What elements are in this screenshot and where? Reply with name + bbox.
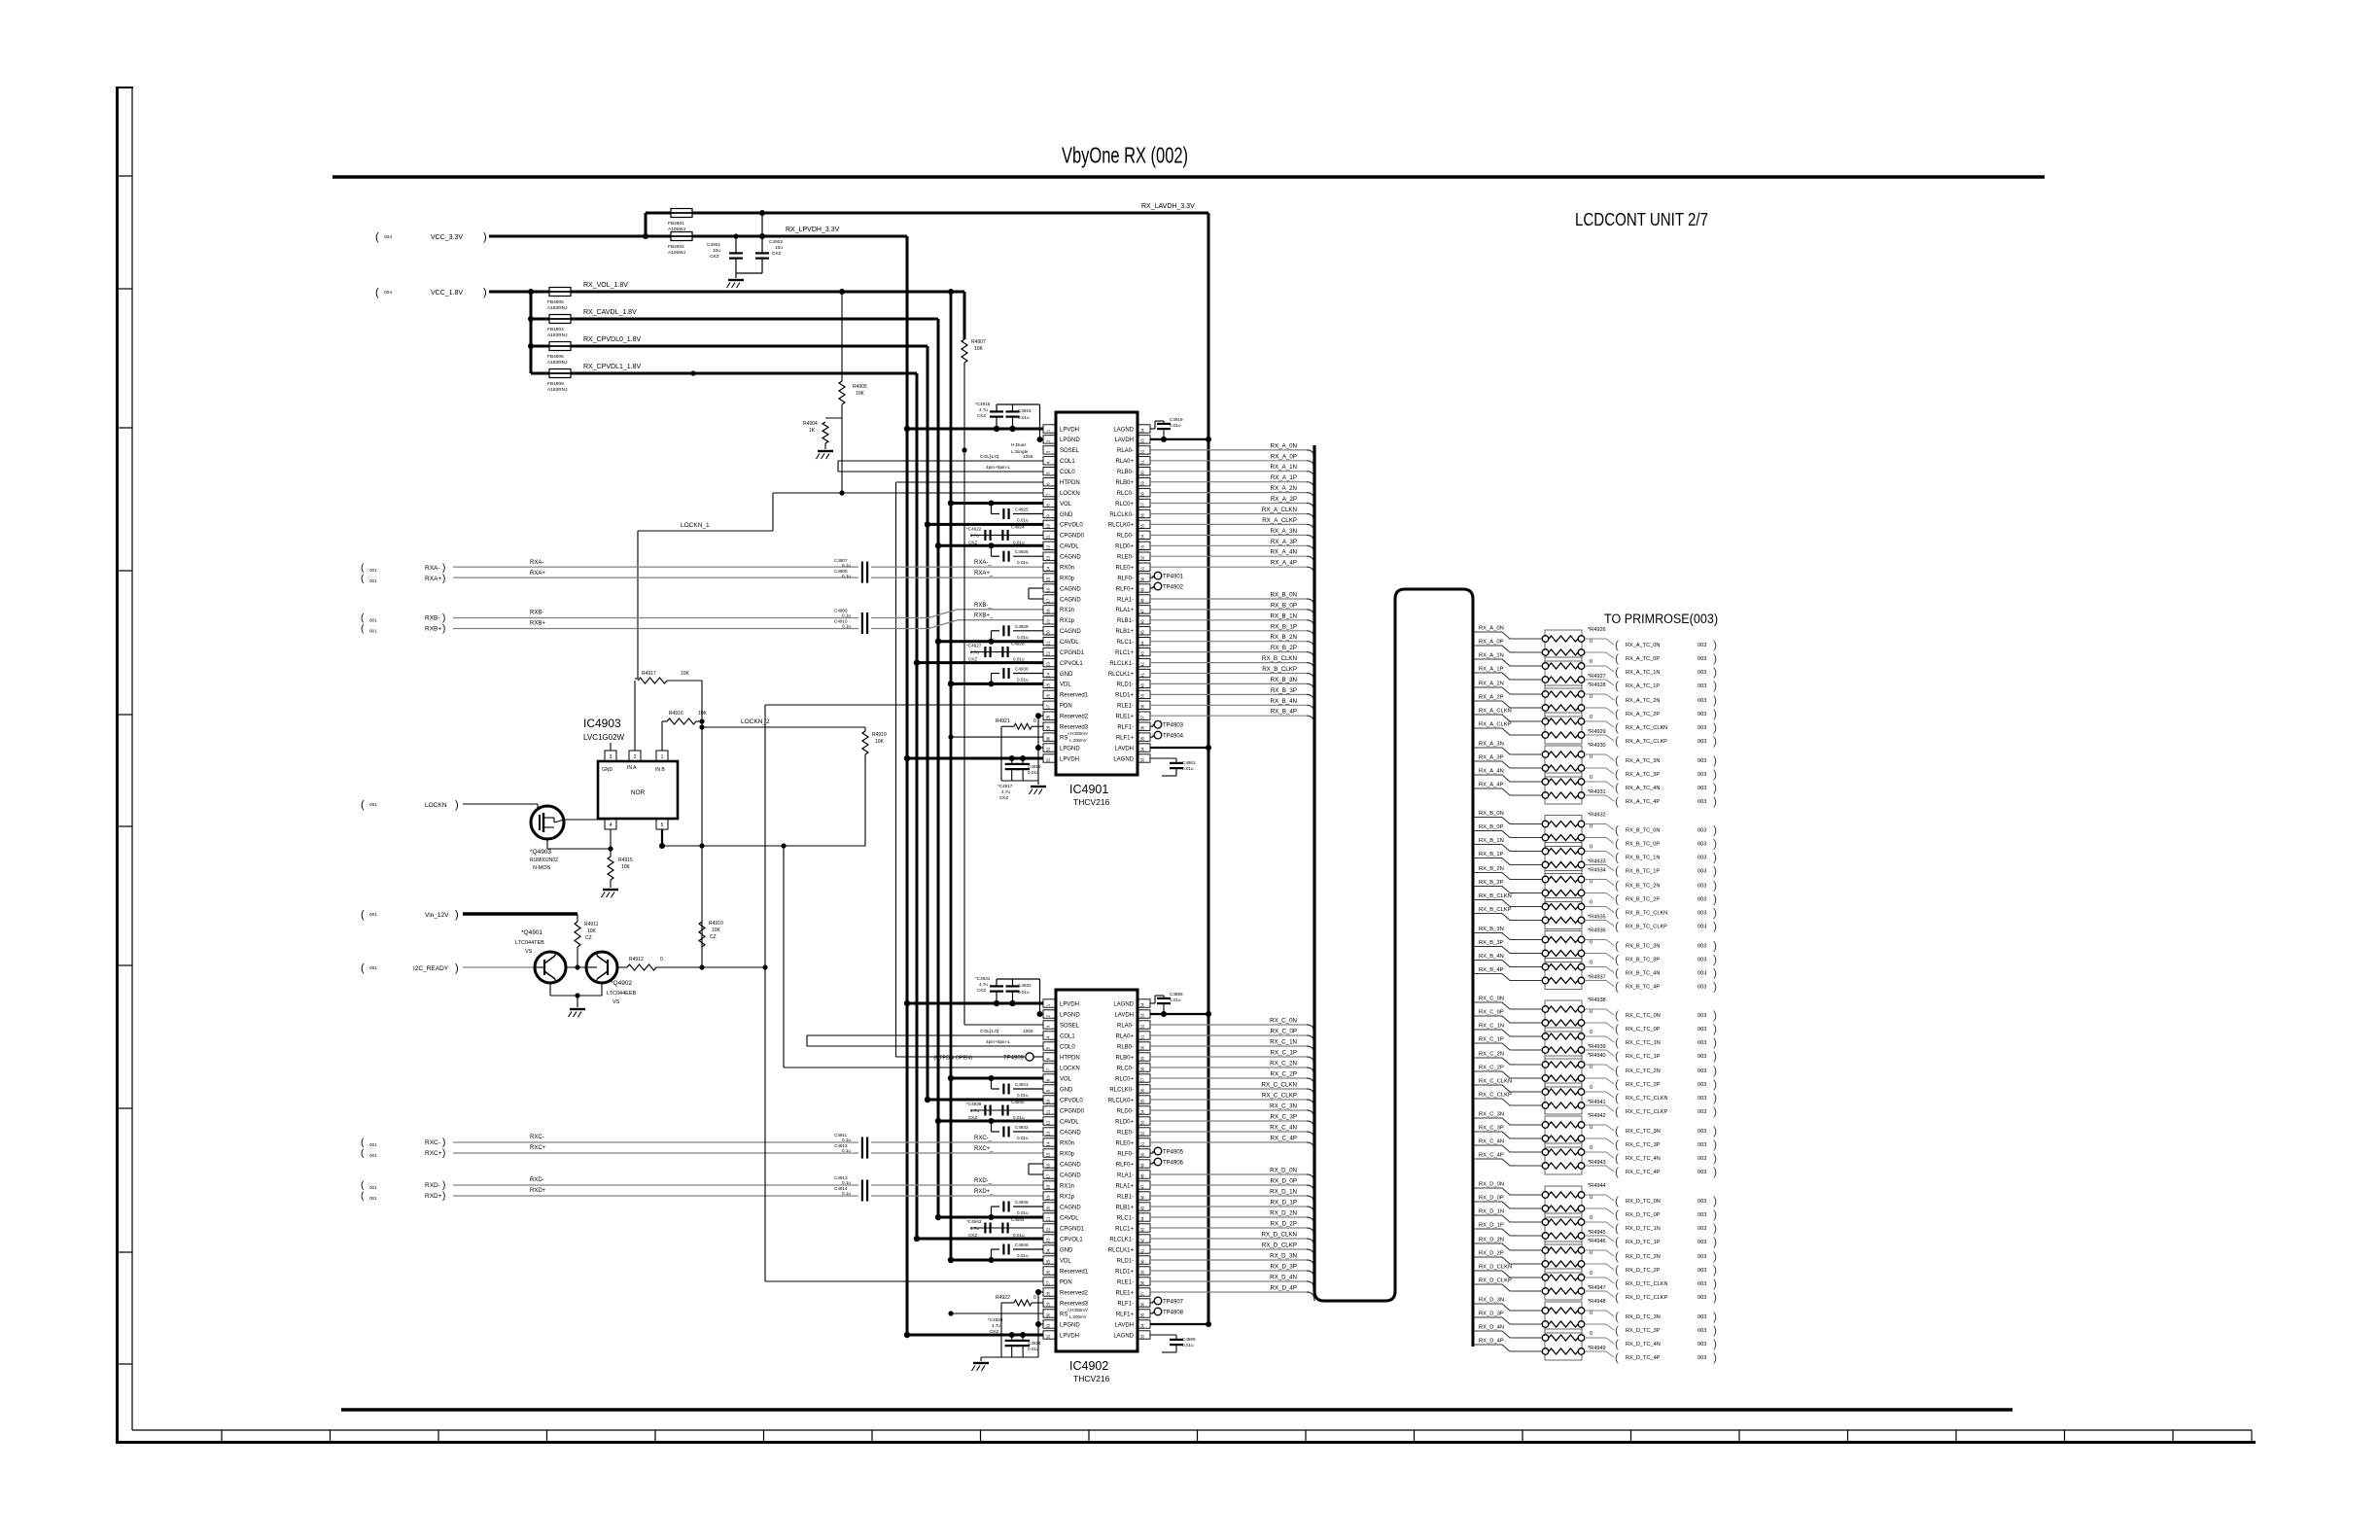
svg-text:(: ( bbox=[1615, 1235, 1619, 1248]
svg-text:RLF0+: RLF0+ bbox=[1116, 586, 1135, 592]
svg-text:LOCKN: LOCKN bbox=[1060, 491, 1080, 497]
svg-text:41: 41 bbox=[1140, 673, 1145, 678]
svg-text:(: ( bbox=[1615, 1263, 1619, 1277]
svg-text:LAGND: LAGND bbox=[1113, 756, 1134, 762]
svg-text:0.1u: 0.1u bbox=[842, 613, 851, 618]
svg-text:CPVOL1: CPVOL1 bbox=[1060, 1237, 1083, 1242]
svg-text:RX_A_2P: RX_A_2P bbox=[1271, 496, 1297, 503]
svg-text:): ) bbox=[442, 563, 445, 574]
svg-text:): ) bbox=[442, 1148, 445, 1159]
svg-text:16: 16 bbox=[1046, 1163, 1051, 1168]
svg-text:RXB-_: RXB-_ bbox=[974, 603, 992, 609]
svg-text:(: ( bbox=[1615, 906, 1619, 920]
svg-text:21: 21 bbox=[1046, 1216, 1051, 1221]
svg-text:): ) bbox=[1713, 892, 1717, 906]
svg-text:RX_D_TC_0P: RX_D_TC_0P bbox=[1626, 1212, 1661, 1218]
svg-text:RX_B_0N: RX_B_0N bbox=[1479, 811, 1504, 817]
svg-text:001: 001 bbox=[369, 1153, 377, 1158]
svg-text:N-MOS: N-MOS bbox=[533, 865, 551, 871]
svg-text:VDL: VDL bbox=[1060, 682, 1071, 688]
svg-text:RX_A_TC_1N: RX_A_TC_1N bbox=[1626, 670, 1660, 676]
svg-text:20: 20 bbox=[1046, 630, 1051, 635]
svg-text:R4910: R4910 bbox=[709, 921, 723, 927]
svg-text:*R4940: *R4940 bbox=[1588, 1053, 1606, 1059]
svg-text:5: 5 bbox=[661, 822, 664, 828]
svg-text:RX_D_4N: RX_D_4N bbox=[1479, 1325, 1504, 1331]
svg-text:): ) bbox=[1713, 920, 1717, 933]
svg-text:LPVDH: LPVDH bbox=[1060, 1333, 1079, 1339]
svg-text:0: 0 bbox=[1590, 1331, 1592, 1337]
svg-text:C4902: C4902 bbox=[769, 239, 783, 245]
svg-text:RX_D_2N: RX_D_2N bbox=[1479, 1238, 1504, 1243]
svg-text:28: 28 bbox=[1046, 715, 1051, 719]
svg-text:RXA-: RXA- bbox=[530, 560, 543, 566]
svg-text:A105WJ: A105WJ bbox=[668, 227, 686, 232]
svg-text:RXA+: RXA+ bbox=[425, 576, 441, 582]
svg-text:RXC+_: RXC+_ bbox=[974, 1146, 994, 1152]
svg-text:): ) bbox=[455, 962, 459, 974]
svg-text:(: ( bbox=[1615, 1350, 1619, 1364]
svg-text:R4907: R4907 bbox=[971, 339, 986, 345]
svg-text:THCV216: THCV216 bbox=[1073, 797, 1110, 807]
svg-text:*R4932: *R4932 bbox=[1588, 813, 1606, 819]
svg-text:COL1: COL1 bbox=[1060, 1033, 1075, 1039]
svg-text:): ) bbox=[1713, 638, 1717, 651]
svg-text:52: 52 bbox=[1140, 1131, 1145, 1136]
svg-text:Reserved3: Reserved3 bbox=[1060, 1301, 1089, 1307]
svg-text:RX_C_TC_2N: RX_C_TC_2N bbox=[1626, 1068, 1661, 1074]
svg-text:0.01u: 0.01u bbox=[1028, 1347, 1039, 1351]
svg-text:): ) bbox=[1713, 939, 1717, 953]
svg-text:RX_B_3N: RX_B_3N bbox=[1479, 927, 1504, 932]
svg-text:*R4939: *R4939 bbox=[1588, 1044, 1606, 1050]
svg-text:R4904: R4904 bbox=[803, 421, 818, 427]
svg-text:0: 0 bbox=[1590, 824, 1592, 830]
svg-text:36: 36 bbox=[1140, 1302, 1145, 1307]
svg-text:51: 51 bbox=[1140, 1141, 1145, 1146]
svg-text:C4926: C4926 bbox=[1015, 549, 1029, 554]
svg-text:): ) bbox=[455, 799, 459, 811]
svg-text:17: 17 bbox=[1046, 598, 1051, 603]
svg-text:RX_C_TC_4N: RX_C_TC_4N bbox=[1626, 1156, 1661, 1162]
svg-text:52: 52 bbox=[1140, 555, 1145, 560]
svg-text:RX_D_2P: RX_D_2P bbox=[1270, 1221, 1297, 1228]
svg-text:CPVOL0: CPVOL0 bbox=[1060, 523, 1083, 529]
svg-text:RX_B_CLKP: RX_B_CLKP bbox=[1262, 666, 1297, 673]
svg-text:RLE1-: RLE1- bbox=[1117, 1279, 1134, 1285]
svg-text:RX_A_TC_2N: RX_A_TC_2N bbox=[1626, 698, 1660, 704]
svg-text:003: 003 bbox=[1697, 884, 1706, 890]
svg-text:34: 34 bbox=[1140, 747, 1145, 752]
svg-text:003: 003 bbox=[1697, 772, 1706, 778]
svg-text:): ) bbox=[1713, 1310, 1717, 1323]
svg-text:RX_A_CLKN: RX_A_CLKN bbox=[1262, 507, 1297, 513]
svg-text:RX_B_TC_1P: RX_B_TC_1P bbox=[1626, 869, 1660, 875]
svg-text:RX_D_CLKN: RX_D_CLKN bbox=[1479, 1265, 1512, 1271]
svg-text:RX_B_1P: RX_B_1P bbox=[1479, 852, 1504, 857]
svg-text:RX_A_TC_3P: RX_A_TC_3P bbox=[1626, 772, 1660, 778]
svg-text:RX1p: RX1p bbox=[1060, 1194, 1075, 1200]
svg-text:PDN: PDN bbox=[1060, 704, 1072, 710]
svg-text:(: ( bbox=[1615, 1221, 1619, 1235]
svg-text:RLD0+: RLD0+ bbox=[1115, 1119, 1134, 1125]
svg-text:001: 001 bbox=[369, 629, 377, 634]
svg-text:RX_B_TC_0P: RX_B_TC_0P bbox=[1626, 842, 1660, 848]
svg-text:RLCLK1+: RLCLK1+ bbox=[1108, 672, 1135, 678]
svg-text:003: 003 bbox=[1697, 1129, 1706, 1135]
svg-text:RXA-_: RXA-_ bbox=[974, 560, 992, 566]
svg-text:C4932: C4932 bbox=[1018, 983, 1032, 988]
svg-text:0: 0 bbox=[1033, 1295, 1036, 1301]
svg-text:10K: 10K bbox=[974, 346, 984, 352]
svg-text:003: 003 bbox=[1697, 911, 1706, 917]
svg-text:CKZ: CKZ bbox=[977, 413, 986, 418]
svg-text:CAGND: CAGND bbox=[1060, 586, 1081, 592]
svg-text:CZ: CZ bbox=[710, 934, 717, 940]
svg-text:004: 004 bbox=[384, 290, 392, 296]
svg-text:RX_A_2P: RX_A_2P bbox=[1479, 695, 1504, 701]
svg-text:0: 0 bbox=[1033, 718, 1036, 724]
svg-text:RX_D_1P: RX_D_1P bbox=[1270, 1200, 1297, 1207]
svg-text:<H:350mV: <H:350mV bbox=[1067, 1308, 1088, 1312]
svg-text:RLB1-: RLB1- bbox=[1117, 1194, 1134, 1200]
svg-text:33: 33 bbox=[1140, 1334, 1145, 1339]
svg-text:RLC0+: RLC0+ bbox=[1115, 502, 1134, 507]
svg-text:): ) bbox=[1713, 1263, 1717, 1277]
svg-text:RX_A_3N: RX_A_3N bbox=[1479, 742, 1504, 748]
svg-text:001: 001 bbox=[369, 578, 377, 583]
svg-text:4.7u: 4.7u bbox=[970, 533, 979, 538]
svg-text:60: 60 bbox=[1140, 471, 1145, 475]
svg-text:RLD1-: RLD1- bbox=[1117, 1258, 1134, 1264]
svg-text:0.01u: 0.01u bbox=[1013, 1115, 1025, 1120]
svg-text:003: 003 bbox=[1697, 1040, 1706, 1046]
svg-text:): ) bbox=[483, 287, 487, 298]
svg-text:): ) bbox=[1713, 1064, 1717, 1077]
svg-text:RX_B_TC_4P: RX_B_TC_4P bbox=[1626, 985, 1660, 991]
svg-text:38: 38 bbox=[1140, 1280, 1145, 1285]
svg-text:CPGND1: CPGND1 bbox=[1060, 1226, 1085, 1232]
svg-text:58: 58 bbox=[1140, 492, 1145, 497]
svg-text:LOCKN: LOCKN bbox=[1060, 1066, 1080, 1071]
svg-text:001: 001 bbox=[369, 1185, 377, 1190]
svg-text:RX_B_TC_4N: RX_B_TC_4N bbox=[1626, 971, 1660, 977]
svg-text:003: 003 bbox=[1697, 869, 1706, 875]
svg-text:RX_A_4P: RX_A_4P bbox=[1271, 560, 1297, 567]
svg-text:RX_B_0P: RX_B_0P bbox=[1479, 824, 1504, 830]
svg-text:C4899: C4899 bbox=[1182, 1337, 1196, 1342]
svg-text:11: 11 bbox=[1046, 1109, 1051, 1114]
svg-text:C4929: C4929 bbox=[1015, 624, 1029, 629]
svg-text:R4919: R4919 bbox=[872, 732, 887, 738]
svg-text:*R4944: *R4944 bbox=[1588, 1183, 1606, 1189]
svg-text:GND: GND bbox=[1060, 1087, 1073, 1093]
svg-text:(: ( bbox=[375, 287, 379, 298]
svg-text:RXA+_: RXA+_ bbox=[974, 571, 994, 577]
svg-text:VCC_1.8V: VCC_1.8V bbox=[431, 290, 463, 297]
svg-text:10K: 10K bbox=[681, 671, 690, 677]
svg-text:0.1u: 0.1u bbox=[842, 1191, 851, 1196]
svg-text:RX1n: RX1n bbox=[1060, 608, 1074, 613]
svg-text:54: 54 bbox=[1140, 1109, 1145, 1114]
svg-text:CAGND: CAGND bbox=[1060, 597, 1081, 603]
svg-text:RX_D_TC_4N: RX_D_TC_4N bbox=[1626, 1342, 1661, 1347]
svg-text:LOCKN: LOCKN bbox=[425, 802, 447, 809]
svg-text:RXD+: RXD+ bbox=[530, 1188, 546, 1194]
svg-text:RX_D_1N: RX_D_1N bbox=[1479, 1209, 1504, 1215]
svg-text:RX_A_4N: RX_A_4N bbox=[1479, 769, 1504, 775]
svg-text:63: 63 bbox=[1140, 438, 1145, 443]
svg-text:RLB0+: RLB0+ bbox=[1115, 480, 1134, 486]
svg-text:4.7u: 4.7u bbox=[992, 1323, 1000, 1328]
svg-text:): ) bbox=[1713, 1194, 1717, 1207]
svg-text:RXA-: RXA- bbox=[425, 565, 440, 572]
svg-text:RLC0-: RLC0- bbox=[1117, 1066, 1134, 1071]
svg-text:RLA1+: RLA1+ bbox=[1115, 608, 1134, 613]
svg-text:RX_D_4N: RX_D_4N bbox=[1270, 1275, 1297, 1281]
svg-text:001: 001 bbox=[369, 568, 377, 573]
svg-text:CAGND: CAGND bbox=[1060, 1162, 1081, 1168]
svg-text:RX_C_TC_1N: RX_C_TC_1N bbox=[1626, 1040, 1661, 1046]
svg-text:0: 0 bbox=[1590, 694, 1592, 700]
svg-text:RX_C_3P: RX_C_3P bbox=[1479, 1126, 1504, 1132]
svg-text:46: 46 bbox=[1140, 619, 1145, 624]
svg-text:001: 001 bbox=[369, 802, 377, 808]
svg-text:RXC+: RXC+ bbox=[425, 1150, 442, 1157]
svg-text:): ) bbox=[1713, 707, 1717, 720]
svg-text:): ) bbox=[1713, 1221, 1717, 1235]
svg-text:RLB0-: RLB0- bbox=[1117, 470, 1134, 475]
svg-text:*C4927: *C4927 bbox=[966, 644, 982, 648]
svg-text:(: ( bbox=[1615, 1310, 1619, 1323]
svg-text:RX_D_CLKN: RX_D_CLKN bbox=[1262, 1232, 1297, 1239]
svg-text:0.01u: 0.01u bbox=[1170, 997, 1181, 1002]
svg-text:4.7u: 4.7u bbox=[979, 982, 988, 987]
svg-text:RX_LPVDH_3.3V: RX_LPVDH_3.3V bbox=[786, 227, 840, 233]
svg-text:61: 61 bbox=[1140, 1034, 1145, 1039]
svg-text:RLD1+: RLD1+ bbox=[1115, 1269, 1134, 1275]
svg-text:RX_B_1P: RX_B_1P bbox=[1271, 623, 1297, 630]
svg-text:): ) bbox=[1713, 1277, 1717, 1290]
svg-text:2: 2 bbox=[634, 754, 637, 760]
svg-text:RLC1-: RLC1- bbox=[1117, 640, 1134, 646]
svg-text:RXB+: RXB+ bbox=[530, 621, 545, 627]
svg-text:003: 003 bbox=[1697, 1212, 1706, 1218]
svg-text:RLE0-: RLE0- bbox=[1117, 555, 1134, 561]
svg-text:R4911: R4911 bbox=[584, 922, 599, 927]
svg-text:NOR: NOR bbox=[631, 789, 646, 796]
svg-text:TP4908: TP4908 bbox=[1163, 1311, 1184, 1316]
svg-text:26: 26 bbox=[1046, 1270, 1051, 1275]
svg-text:CAGND: CAGND bbox=[1060, 555, 1081, 561]
svg-text:RX_C_TC_0P: RX_C_TC_0P bbox=[1626, 1027, 1661, 1032]
svg-text:RX_D_2P: RX_D_2P bbox=[1479, 1251, 1504, 1257]
svg-text:RX_A_TC_CLKP: RX_A_TC_CLKP bbox=[1626, 739, 1667, 745]
svg-text:C4930: C4930 bbox=[1015, 667, 1029, 672]
svg-text:48: 48 bbox=[1140, 598, 1145, 603]
svg-text:0: 0 bbox=[1590, 1195, 1592, 1201]
svg-text:003: 003 bbox=[1697, 1328, 1706, 1334]
svg-text:GND: GND bbox=[602, 767, 613, 773]
svg-text:003: 003 bbox=[1697, 1240, 1706, 1245]
svg-text:10u: 10u bbox=[713, 248, 720, 254]
svg-text:22: 22 bbox=[1046, 651, 1051, 656]
svg-text:RXD-: RXD- bbox=[530, 1177, 544, 1183]
svg-text:45: 45 bbox=[1140, 630, 1145, 635]
svg-text:RX_A_CLKP: RX_A_CLKP bbox=[1262, 517, 1297, 524]
svg-text:003: 003 bbox=[1697, 1199, 1706, 1205]
svg-text:RX_D_TC_2N: RX_D_TC_2N bbox=[1626, 1254, 1661, 1260]
svg-text:): ) bbox=[483, 231, 487, 243]
svg-text:003: 003 bbox=[1697, 1142, 1706, 1148]
svg-text:RXC-: RXC- bbox=[530, 1135, 544, 1140]
svg-text:0.01u: 0.01u bbox=[1028, 770, 1039, 775]
svg-text:1K: 1K bbox=[809, 428, 816, 434]
svg-text:39: 39 bbox=[1140, 693, 1145, 698]
svg-text:(: ( bbox=[1615, 920, 1619, 933]
svg-text:11: 11 bbox=[1046, 535, 1051, 540]
svg-text:FB4902: FB4902 bbox=[668, 244, 684, 250]
svg-text:LPVDH: LPVDH bbox=[1060, 427, 1079, 433]
svg-text:10K: 10K bbox=[875, 739, 885, 745]
svg-text:003: 003 bbox=[1697, 698, 1706, 704]
svg-text:0.01u: 0.01u bbox=[1013, 657, 1025, 662]
svg-text:Reserved1: Reserved1 bbox=[1060, 693, 1089, 699]
svg-text:21: 21 bbox=[1046, 641, 1051, 646]
svg-text:LPVDH: LPVDH bbox=[1060, 1001, 1079, 1007]
svg-text:RX_C_CLKN: RX_C_CLKN bbox=[1479, 1079, 1512, 1085]
svg-text:CAGND: CAGND bbox=[1060, 1130, 1081, 1136]
svg-text:59: 59 bbox=[1140, 1056, 1145, 1061]
svg-text:): ) bbox=[1713, 1137, 1717, 1151]
svg-text:27: 27 bbox=[1046, 704, 1051, 709]
svg-text:(: ( bbox=[1615, 638, 1619, 651]
svg-text:): ) bbox=[1713, 767, 1717, 781]
svg-text:Reserved2: Reserved2 bbox=[1060, 1290, 1089, 1296]
svg-text:): ) bbox=[1713, 679, 1717, 692]
svg-text:): ) bbox=[1713, 734, 1717, 748]
svg-text:*R4929: *R4929 bbox=[1588, 729, 1606, 735]
svg-text:I2C_READY: I2C_READY bbox=[413, 965, 449, 972]
svg-text:0.01u: 0.01u bbox=[1018, 990, 1030, 995]
svg-text:RX_D_TC_1P: RX_D_TC_1P bbox=[1626, 1240, 1661, 1245]
svg-text:RX_D_2N: RX_D_2N bbox=[1270, 1210, 1297, 1217]
svg-text:): ) bbox=[1713, 1350, 1717, 1364]
svg-text:003: 003 bbox=[1697, 1295, 1706, 1301]
svg-text:RLCLK1-: RLCLK1- bbox=[1109, 1237, 1134, 1242]
svg-text:RX_B_2P: RX_B_2P bbox=[1479, 880, 1504, 886]
svg-text:10K: 10K bbox=[856, 391, 865, 397]
svg-text:4pin+5pin-L: 4pin+5pin-L bbox=[986, 465, 1011, 471]
svg-text:RXB+: RXB+ bbox=[425, 626, 441, 633]
svg-text:LOCKN_1: LOCKN_1 bbox=[681, 522, 710, 529]
svg-text:RLF0-: RLF0- bbox=[1117, 1151, 1134, 1157]
svg-text:32: 32 bbox=[1046, 757, 1051, 762]
svg-text:RXD-_: RXD-_ bbox=[974, 1178, 993, 1184]
svg-text:35: 35 bbox=[1140, 736, 1145, 741]
svg-text:4pin+5pin-L: 4pin+5pin-L bbox=[986, 1039, 1011, 1045]
svg-text:*R4937: *R4937 bbox=[1588, 975, 1606, 981]
svg-text:(: ( bbox=[1615, 939, 1619, 953]
svg-text:27: 27 bbox=[1046, 1280, 1051, 1285]
svg-text:RX_D_TC_0N: RX_D_TC_0N bbox=[1626, 1199, 1661, 1205]
svg-text:58: 58 bbox=[1140, 1067, 1145, 1071]
svg-text:(: ( bbox=[1615, 823, 1619, 837]
svg-text:RX_D_1P: RX_D_1P bbox=[1479, 1223, 1504, 1229]
svg-text:4.7u: 4.7u bbox=[970, 650, 979, 655]
svg-text:14: 14 bbox=[1046, 566, 1051, 571]
svg-text:0: 0 bbox=[660, 957, 663, 962]
svg-text:): ) bbox=[1713, 864, 1717, 878]
svg-text:0: 0 bbox=[1590, 1030, 1592, 1035]
svg-text:L:200mV: L:200mV bbox=[1069, 1314, 1087, 1319]
svg-text:(: ( bbox=[1615, 1022, 1619, 1035]
svg-text:*R4947: *R4947 bbox=[1588, 1285, 1606, 1291]
svg-text:RX1n: RX1n bbox=[1060, 1183, 1074, 1189]
svg-text:RLE0+: RLE0+ bbox=[1115, 1140, 1134, 1146]
svg-text:RX_A_3P: RX_A_3P bbox=[1479, 755, 1504, 761]
svg-text:): ) bbox=[1713, 794, 1717, 808]
svg-text:RX_A_2N: RX_A_2N bbox=[1270, 485, 1297, 492]
svg-text:46: 46 bbox=[1140, 1195, 1145, 1200]
svg-text:63: 63 bbox=[1140, 1013, 1145, 1018]
svg-text:RX_A_4N: RX_A_4N bbox=[1270, 549, 1297, 556]
svg-text:RX_A_TC_0N: RX_A_TC_0N bbox=[1626, 643, 1660, 648]
svg-text:RX_A_TC_2P: RX_A_TC_2P bbox=[1626, 712, 1660, 717]
svg-text:45: 45 bbox=[1140, 1206, 1145, 1210]
svg-text:0: 0 bbox=[1590, 940, 1592, 946]
svg-text:44: 44 bbox=[1140, 1216, 1145, 1221]
svg-text:RLE1-: RLE1- bbox=[1117, 704, 1134, 710]
svg-text:0.1u: 0.1u bbox=[842, 624, 851, 629]
svg-text:): ) bbox=[442, 1191, 445, 1202]
svg-text:003: 003 bbox=[1697, 670, 1706, 676]
svg-text:CPGND0: CPGND0 bbox=[1060, 534, 1085, 540]
svg-text:LAVDH: LAVDH bbox=[1114, 1322, 1134, 1328]
svg-text:RX_A_1P: RX_A_1P bbox=[1271, 474, 1297, 481]
svg-text:003: 003 bbox=[1697, 1342, 1706, 1347]
svg-text:RLCLK0+: RLCLK0+ bbox=[1108, 523, 1135, 529]
svg-text:37: 37 bbox=[1140, 1291, 1145, 1296]
svg-text:(: ( bbox=[361, 909, 365, 921]
svg-text:RX_B_CLKN: RX_B_CLKN bbox=[1262, 655, 1297, 662]
svg-text:RX_A_0N: RX_A_0N bbox=[1479, 626, 1504, 632]
svg-text:SOSEL: SOSEL bbox=[1060, 448, 1080, 454]
svg-text:): ) bbox=[1713, 665, 1717, 679]
svg-text:): ) bbox=[1713, 1104, 1717, 1118]
svg-text:): ) bbox=[1713, 980, 1717, 994]
svg-text:0: 0 bbox=[1590, 754, 1592, 760]
svg-text:(: ( bbox=[1615, 879, 1619, 892]
svg-text:0.01u: 0.01u bbox=[1018, 415, 1030, 420]
svg-text:IC4903: IC4903 bbox=[583, 717, 621, 730]
svg-text:0: 0 bbox=[1590, 845, 1592, 851]
svg-text:RLA0+: RLA0+ bbox=[1115, 459, 1134, 465]
svg-text:RLB0+: RLB0+ bbox=[1115, 1055, 1134, 1061]
svg-text:003: 003 bbox=[1697, 643, 1706, 648]
svg-text:RX_A_TC_4N: RX_A_TC_4N bbox=[1626, 786, 1660, 791]
svg-text:RX_C_2N: RX_C_2N bbox=[1479, 1052, 1504, 1058]
svg-text:TP4907: TP4907 bbox=[1163, 1300, 1184, 1306]
svg-text:IN A: IN A bbox=[627, 765, 637, 771]
svg-text:(: ( bbox=[1615, 781, 1619, 794]
svg-text:A105WJ: A105WJ bbox=[668, 250, 686, 256]
svg-text:TP4901: TP4901 bbox=[1163, 575, 1184, 580]
svg-text:RXB+_: RXB+_ bbox=[974, 613, 994, 619]
svg-text:003: 003 bbox=[1697, 1170, 1706, 1175]
svg-text:RX_B_TC_CLKN: RX_B_TC_CLKN bbox=[1626, 911, 1667, 917]
svg-text:): ) bbox=[1713, 837, 1717, 851]
